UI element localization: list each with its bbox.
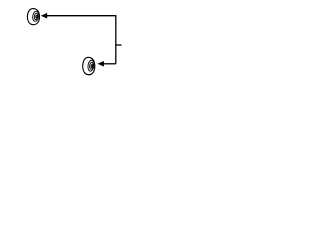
grommet bottom xyxy=(83,57,95,74)
wire: bottom leader line xyxy=(103,63,116,65)
tick on vertical line xyxy=(116,44,122,46)
arrowhead pointing to top grommet xyxy=(41,13,47,19)
arrowhead pointing to bottom grommet xyxy=(98,61,104,67)
wire: top leader line xyxy=(47,15,116,17)
grommet top-left xyxy=(27,9,39,25)
wire: right vertical line xyxy=(115,15,117,64)
